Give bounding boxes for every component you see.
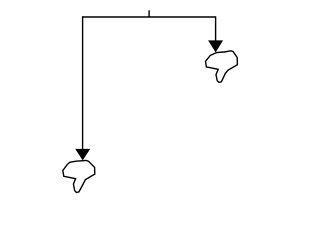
wire: top horizontal connector [83, 16, 216, 18]
arrowhead: right arrow pointing down [208, 40, 223, 52]
wire: right vertical connector [215, 16, 217, 41]
node tick: root stub at top center [148, 10, 150, 17]
wire: left vertical connector [82, 16, 84, 149]
node: left freehand blob shape [63, 160, 95, 192]
arrowhead: left arrow pointing down [75, 149, 90, 161]
node: right freehand blob shape [206, 51, 238, 83]
